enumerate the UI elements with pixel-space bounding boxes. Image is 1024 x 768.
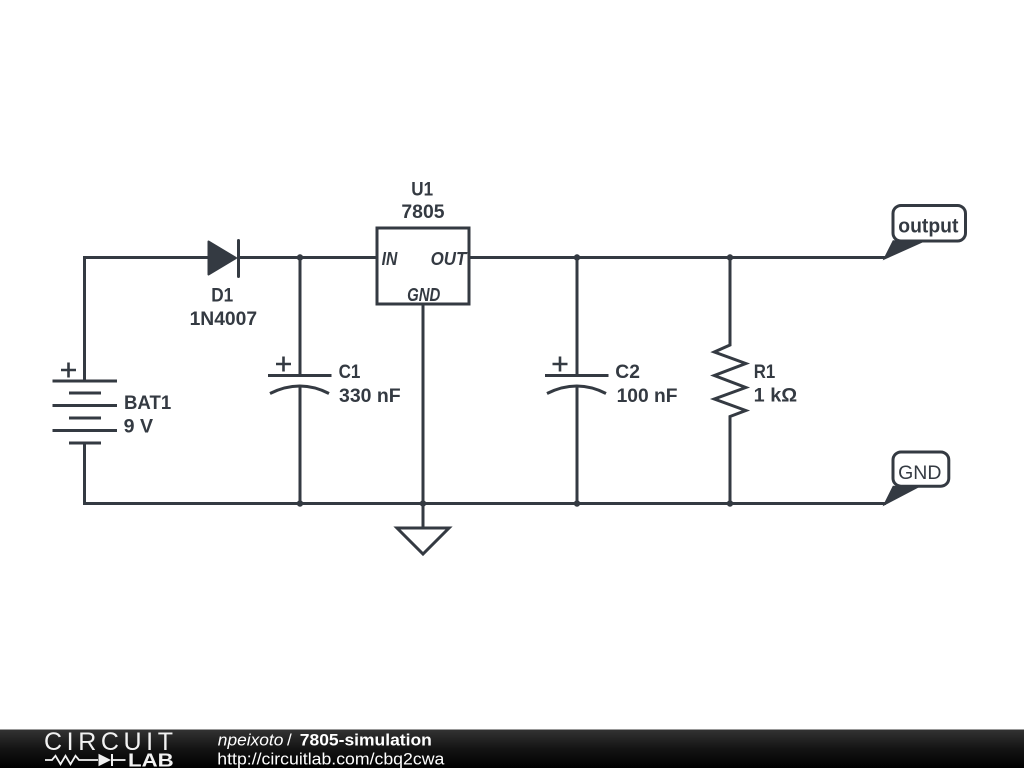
svg-text:1 kΩ: 1 kΩ <box>754 385 797 407</box>
C2 plus sign <box>553 357 568 372</box>
capacitor C1 <box>268 376 332 394</box>
wire C1 bottom <box>299 388 302 504</box>
svg-text:7805-simulation: 7805-simulation <box>300 731 432 750</box>
svg-text:GND: GND <box>898 463 941 484</box>
svg-text:BAT1: BAT1 <box>124 392 171 414</box>
svg-text:http://circuitlab.com/cbq2cwa: http://circuitlab.com/cbq2cwa <box>217 749 445 768</box>
diode D1 <box>209 241 239 277</box>
svg-text:OUT: OUT <box>431 249 469 269</box>
svg-text:9 V: 9 V <box>124 416 153 438</box>
svg-text:D1: D1 <box>211 284 233 306</box>
ground symbol <box>397 528 449 554</box>
node dot bottom C1 <box>297 500 303 506</box>
op-amp U1 box (7805 regulator) <box>377 228 469 304</box>
node dot bottom R1 <box>727 500 733 506</box>
node dot bottom C2 <box>574 500 580 506</box>
wire C2 top <box>576 258 579 375</box>
svg-text:GND: GND <box>407 285 440 305</box>
wire battery top to diode anode <box>85 258 209 382</box>
C1 plus sign <box>276 357 291 372</box>
node dot bottom ground <box>420 500 426 506</box>
svg-text:7805: 7805 <box>401 201 444 223</box>
wire C2 bottom <box>576 388 579 504</box>
CircuitLab logo doodle (resistor + diode) <box>45 756 126 764</box>
capacitor C2 <box>545 376 609 394</box>
battery plus sign <box>61 363 76 378</box>
wire battery bottom to GND flag (bottom rail) <box>85 443 885 504</box>
svg-text:/: / <box>287 731 292 750</box>
wire diode cathode to U1 IN <box>240 256 377 259</box>
svg-text:U1: U1 <box>411 179 433 201</box>
node dot top R1 <box>727 254 733 260</box>
svg-text:npeixoto: npeixoto <box>218 731 284 750</box>
svg-text:LAB: LAB <box>128 750 174 768</box>
GND flag <box>884 452 949 505</box>
battery BAT1 <box>53 381 118 443</box>
node dot top C2 <box>574 254 580 260</box>
svg-text:R1: R1 <box>754 361 776 383</box>
svg-text:330 nF: 330 nF <box>339 385 401 407</box>
wire U1 GND pin to ground <box>422 304 425 528</box>
resistor R1 <box>714 258 746 504</box>
svg-text:C2: C2 <box>615 361 640 383</box>
wire U1 OUT to output flag <box>469 256 885 259</box>
svg-text:1N4007: 1N4007 <box>190 308 258 330</box>
svg-text:100 nF: 100 nF <box>617 385 678 407</box>
svg-text:IN: IN <box>382 249 399 269</box>
svg-text:C1: C1 <box>339 361 361 383</box>
output flag <box>884 206 965 259</box>
svg-text:output: output <box>898 215 958 237</box>
node dot top C1 <box>297 254 303 260</box>
wire C1 top <box>299 258 302 375</box>
